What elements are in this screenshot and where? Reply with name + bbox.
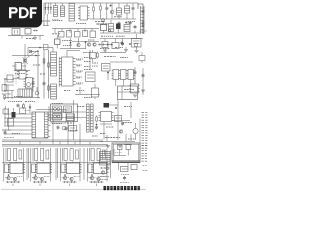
schematic sheet bbox=[0, 0, 149, 198]
wire band rail bbox=[100, 32, 140, 34]
transformer T1 outline bbox=[112, 143, 140, 163]
wire amp row links bbox=[2, 148, 108, 180]
ground under U4 bbox=[135, 47, 139, 53]
IC U5 bbox=[17, 70, 35, 88]
op-amp U9 bbox=[53, 106, 62, 113]
wire under badge bbox=[8, 36, 44, 41]
text c1 row1 bbox=[8, 101, 36, 103]
transistor Q11 bbox=[102, 19, 105, 22]
wire b3 top rail bbox=[100, 52, 126, 54]
node F bbox=[129, 43, 131, 45]
text page ref bbox=[96, 181, 99, 183]
wire bus taps bbox=[20, 142, 90, 145]
resistor R18 bbox=[86, 72, 96, 82]
text center labels bbox=[84, 58, 98, 70]
resistor R33 bbox=[102, 39, 108, 48]
resistor R5 bbox=[96, 23, 108, 25]
wire left of t1 bbox=[105, 150, 111, 178]
ground a3 2 bbox=[124, 47, 128, 52]
connector J5 bbox=[87, 104, 94, 132]
node C bbox=[107, 71, 109, 80]
text c3 bottom bbox=[105, 138, 132, 145]
resistor R31 bbox=[83, 31, 88, 37]
resistor R9 bbox=[124, 21, 130, 32]
text ref under t1 bbox=[120, 175, 129, 183]
capacitor C23 bbox=[123, 176, 126, 180]
resistor R12 bbox=[12, 63, 27, 71]
transistor Q12 bbox=[108, 29, 110, 31]
text bus label bbox=[4, 137, 14, 139]
amplifier block A4 (IC U15) bbox=[87, 148, 108, 186]
resistor R4 bbox=[125, 3, 130, 19]
resistor R10 bbox=[55, 35, 61, 49]
resistor R20 bbox=[129, 84, 139, 93]
wire t1 inner bbox=[114, 149, 126, 156]
wire top power bus bbox=[44, 3, 138, 9]
wire u5 left leads bbox=[4, 80, 14, 100]
ground right edge bbox=[141, 90, 145, 92]
text c2 mid bbox=[70, 131, 98, 137]
capacitor C4 bbox=[129, 21, 132, 25]
IC U11 bbox=[99, 112, 114, 122]
text q4 labels bbox=[15, 65, 40, 74]
terminal strip TB2 bbox=[142, 146, 148, 162]
text right-edge terminals bbox=[143, 166, 148, 171]
resistor network RN1 bbox=[112, 70, 135, 80]
wire c3 vert bbox=[117, 100, 119, 140]
node E bbox=[115, 107, 117, 109]
resistor R2 bbox=[100, 3, 102, 19]
wire rn1 drops bbox=[116, 80, 131, 87]
ground right mid bbox=[133, 95, 137, 97]
capacitor C25 round bbox=[134, 43, 138, 47]
capacitor C9 bbox=[121, 41, 124, 45]
text right rail bbox=[140, 30, 147, 32]
transistor Q3 bbox=[77, 38, 80, 47]
transistor Q13 bbox=[29, 50, 32, 53]
capacitor C22 bbox=[126, 145, 131, 156]
wire c2 taps bbox=[53, 100, 80, 145]
IC U7 bbox=[102, 64, 111, 72]
capacitor C19 bbox=[121, 121, 124, 125]
diode D3 bbox=[50, 3, 52, 14]
wire right edge col bbox=[142, 68, 144, 95]
capacitor C3 bbox=[118, 21, 121, 25]
resistor R27 bbox=[121, 167, 129, 172]
transistor Q10 bbox=[93, 43, 96, 46]
resistor R34 bbox=[112, 39, 119, 49]
IC U4 small bbox=[132, 34, 142, 47]
resistor R42 bbox=[44, 45, 49, 50]
wire bridge bbox=[60, 48, 86, 50]
wire u8 vleft bbox=[5, 108, 9, 130]
wire c3 links bbox=[112, 102, 131, 121]
IC U8 bbox=[32, 112, 51, 138]
resistor R32 bbox=[90, 31, 96, 38]
amplifier block A1 (IC U12) bbox=[4, 148, 25, 186]
resistor R15 bbox=[48, 62, 50, 69]
text b2 col bbox=[84, 62, 98, 67]
terminal strip TB0 bbox=[141, 6, 145, 34]
resistor R8 bbox=[109, 20, 114, 32]
node A bbox=[110, 5, 112, 7]
wire t1 bottom drops bbox=[119, 163, 129, 170]
IC U2 bbox=[78, 6, 90, 20]
transistor Q4 bbox=[23, 44, 28, 71]
text u9 label bbox=[52, 103, 62, 105]
text labels under J1 bbox=[42, 20, 62, 23]
capacitor C24 bbox=[121, 39, 124, 47]
resistor R17 bbox=[4, 94, 6, 100]
capacitor C6 bbox=[134, 25, 137, 33]
capacitor C2 bbox=[132, 3, 135, 19]
capacitor C11 bbox=[43, 81, 46, 85]
text u17 labels bbox=[98, 177, 109, 180]
wire dashed col bbox=[15, 64, 17, 84]
text top right labels bbox=[95, 17, 135, 22]
IC U1 bbox=[69, 4, 75, 22]
resistor R41 bbox=[20, 105, 30, 114]
amplifier block A3 (IC U14) bbox=[60, 148, 81, 186]
resistor R13 bbox=[2, 85, 7, 92]
capacitor C27 round bbox=[35, 87, 39, 95]
resistor R22 bbox=[8, 119, 14, 127]
transistor Q6 blob bbox=[104, 103, 119, 108]
diode D5 bbox=[29, 104, 32, 113]
resistor R1 bbox=[93, 3, 95, 19]
capacitor C12 bbox=[92, 84, 99, 99]
capacitor C15 bbox=[17, 103, 20, 107]
wire bottom sheet rule bbox=[1, 188, 146, 190]
text under badge bbox=[26, 38, 34, 40]
wire u6 top bbox=[67, 50, 80, 57]
wire lower link bbox=[28, 47, 53, 56]
module M1 outline bbox=[51, 104, 78, 122]
text c1 row3 bbox=[2, 130, 20, 134]
capacitor C20 big bbox=[133, 123, 138, 140]
wire u6 right stubs bbox=[77, 60, 82, 94]
wire q4 diag bbox=[28, 51, 38, 58]
wire c3 mid bbox=[100, 122, 113, 140]
resistor R6 bbox=[142, 21, 144, 28]
IC U6 bbox=[59, 57, 76, 86]
text left bottom bbox=[2, 94, 22, 97]
transistor Q8 bbox=[101, 171, 104, 174]
capacitor C8 bbox=[25, 29, 31, 35]
wire bus pair 2 bbox=[2, 145, 108, 147]
wire u8 left leads bbox=[4, 114, 32, 134]
flat ladder U5b bbox=[18, 89, 33, 97]
wire b3 rail2 bbox=[110, 61, 133, 63]
capacitor C13 bbox=[134, 70, 137, 74]
text bridge labels bbox=[62, 39, 94, 42]
PDF badge overlay bbox=[0, 0, 42, 28]
text a2 band bbox=[52, 34, 72, 46]
capacitor C14 bbox=[142, 73, 145, 77]
resistor R21 bbox=[139, 52, 145, 63]
wire node rail bbox=[12, 55, 40, 57]
resistor R36 bbox=[90, 50, 97, 62]
resistor R35 bbox=[4, 75, 19, 82]
diode D4 bbox=[70, 38, 72, 49]
diode D1 bbox=[45, 3, 47, 14]
wire lower rail bbox=[75, 94, 100, 96]
ground under badge bbox=[33, 36, 37, 40]
wire c3 bottom rail bbox=[100, 134, 135, 142]
transformer T1 inner border bbox=[113, 144, 139, 161]
wire q4 emitter bbox=[14, 70, 30, 72]
capacitor C17 bbox=[57, 125, 68, 130]
capacitor C16 bbox=[4, 130, 7, 134]
resistor R39 bbox=[69, 126, 77, 132]
wire bus pair 1 bbox=[2, 140, 103, 142]
resistor R16 bbox=[48, 85, 50, 92]
ground c3 b bbox=[118, 146, 122, 148]
IC U10 bbox=[67, 114, 75, 121]
resistor R3 bbox=[117, 3, 122, 19]
connector J2 bbox=[61, 3, 65, 17]
terminal strip TB1 bbox=[142, 113, 148, 149]
text u6 right labels bbox=[76, 59, 83, 83]
text center bottom bbox=[76, 91, 92, 98]
relay K1 bbox=[118, 86, 138, 100]
connector J4 bbox=[51, 84, 57, 99]
capacitor C28 round bbox=[62, 126, 66, 130]
transistor Q2 blob bbox=[116, 24, 121, 34]
IC U17 bbox=[100, 152, 111, 166]
wire a3 rail ext bbox=[100, 38, 143, 40]
wire a2 rail bbox=[52, 29, 99, 34]
wire u6 left rail bbox=[58, 57, 60, 87]
resistor R11 bbox=[98, 43, 113, 45]
connector J3 bbox=[51, 52, 57, 76]
resistor R28 bbox=[59, 32, 65, 38]
wire u8 right leads bbox=[36, 110, 66, 124]
capacitor C5 bbox=[142, 9, 145, 13]
resistor R7 bbox=[101, 21, 107, 33]
transistor Q7 bbox=[119, 130, 122, 133]
text band labels bbox=[101, 35, 125, 37]
resistor R30 bbox=[75, 32, 81, 38]
text a3 bottom bbox=[100, 48, 123, 49]
resistor R38 bbox=[131, 165, 137, 170]
capacitor C18 bbox=[95, 125, 98, 129]
transistor Q5 blob bbox=[12, 108, 16, 118]
resistor R37 bbox=[33, 30, 38, 32]
amplifier block A2 (IC U13) bbox=[31, 148, 52, 186]
wire c3 drop bbox=[130, 134, 132, 141]
wire center-right bbox=[83, 50, 90, 70]
wire mid-top rail bbox=[90, 18, 136, 20]
resistor R29 bbox=[67, 31, 72, 38]
resistor R26 bbox=[100, 167, 110, 169]
resistor R24 bbox=[96, 116, 98, 123]
node B bbox=[85, 41, 87, 48]
wire c2 rails bbox=[49, 106, 86, 120]
transistor Q1 bbox=[110, 3, 113, 19]
connector J1 bbox=[52, 3, 58, 20]
wire left col verticals bbox=[38, 50, 49, 99]
text c2 labels bbox=[52, 107, 85, 124]
capacitor C10 bbox=[32, 78, 35, 92]
wire a2 rail2 bbox=[72, 41, 99, 43]
wire badge-right rail bbox=[43, 3, 49, 26]
text gap fills bbox=[40, 24, 86, 91]
text c3 mid bbox=[100, 107, 136, 140]
transistor Q9 bbox=[87, 43, 90, 46]
capacitor C1 bbox=[105, 3, 108, 19]
text b3 label bbox=[104, 57, 128, 58]
ground a3 1 bbox=[103, 48, 107, 53]
node D bbox=[96, 124, 98, 126]
title text bbox=[104, 186, 140, 190]
wire tb1 feed bbox=[139, 119, 141, 150]
op-amp U9b bbox=[53, 114, 62, 121]
capacitor C21 bbox=[118, 145, 123, 156]
node G bbox=[125, 22, 127, 24]
wire right rail bbox=[138, 4, 143, 34]
capacitor C26 round bbox=[27, 83, 31, 87]
capacitor C7 bbox=[12, 29, 20, 36]
wire right col mid bbox=[134, 67, 136, 84]
resistor R23 bbox=[23, 103, 25, 109]
resistor R40 bbox=[3, 106, 8, 114]
resistor R19 bbox=[97, 52, 99, 59]
wire b1 bottom rail bbox=[4, 97, 40, 99]
IC U9c bbox=[64, 106, 72, 113]
resistor R14 bbox=[43, 58, 45, 65]
resistor R25 bbox=[115, 116, 122, 122]
diode D2 bbox=[47, 3, 49, 14]
text above node rail bbox=[30, 51, 39, 53]
ground c3 a bbox=[106, 146, 110, 148]
